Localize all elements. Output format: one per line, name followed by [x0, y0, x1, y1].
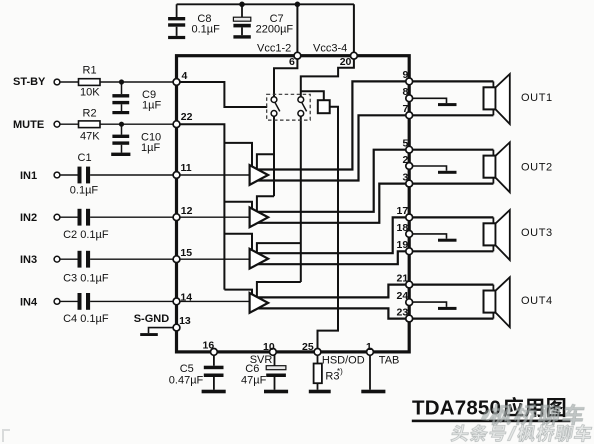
label 47K	[80, 131, 100, 143]
wire Vcc top rail	[177, 3, 354, 5]
node MUTE terminal	[54, 121, 60, 127]
wire coil to pin 25	[318, 107, 339, 352]
wire amp2 out- to pin 3 and OUT2	[258, 184, 494, 223]
svg-text:17: 17	[397, 205, 409, 217]
ground OUT2 mid	[409, 166, 456, 174]
label C7 value	[256, 13, 294, 36]
svg-text:13: 13	[179, 315, 191, 327]
svg-text:C3 0.1µF: C3 0.1µF	[63, 273, 109, 285]
svg-text:Vcc1-2: Vcc1-2	[257, 43, 291, 55]
label R2	[83, 107, 97, 119]
svg-text:C2 0.1µF: C2 0.1µF	[63, 229, 109, 241]
ground (below C10)	[111, 153, 130, 156]
label IN3	[20, 254, 37, 266]
IC TDA7850 body	[177, 56, 410, 352]
junction dot (rail/C7)	[239, 2, 245, 8]
ground (R3)	[309, 390, 331, 394]
svg-text:R1: R1	[83, 65, 97, 77]
ground (TAB)	[361, 390, 385, 394]
label HSD/OD	[322, 355, 365, 367]
wire pin 4 to switch box	[177, 82, 268, 107]
capacitor C3	[60, 251, 250, 268]
watermark row1	[489, 404, 585, 425]
op-amp A1	[250, 165, 269, 185]
node IN4 terminal	[54, 299, 60, 305]
label OUT2	[521, 162, 553, 174]
wire feedback loop amp1	[257, 154, 274, 169]
label IN4	[20, 296, 38, 308]
svg-text:OUT2: OUT2	[521, 162, 553, 174]
wire pin 22 mute bus	[177, 124, 225, 289]
label Vcc1-2	[257, 43, 291, 55]
svg-text:47K: 47K	[80, 131, 100, 143]
svg-text:IN4: IN4	[20, 296, 38, 308]
ground OUT4 mid	[409, 302, 456, 310]
label C8 value	[192, 13, 221, 36]
label OUT1	[521, 92, 553, 104]
pin 8	[403, 86, 413, 102]
svg-text:HSD/OD: HSD/OD	[322, 355, 365, 367]
label 0.1uF (C1)	[70, 185, 99, 197]
speaker OUT2	[484, 142, 510, 192]
svg-text:*): *)	[337, 367, 343, 376]
label C6 value	[241, 363, 267, 387]
wire R2 to pin 22	[100, 123, 177, 125]
wire R1 to pin 4	[100, 81, 177, 83]
wire pin 6 branch to switch	[274, 4, 297, 96]
pin 13	[173, 315, 191, 331]
title TDA7850	[412, 397, 571, 423]
relay coil K1	[318, 100, 330, 113]
label C2 0.1uF	[63, 229, 109, 241]
wire amp4 out- to pin 23 and OUT4	[258, 308, 494, 318]
svg-text:IN3: IN3	[20, 254, 37, 266]
svg-text:24: 24	[397, 290, 409, 302]
capacitor C5	[204, 352, 224, 390]
svg-text:16: 16	[203, 340, 215, 352]
pin 11	[173, 162, 192, 178]
svg-text:C4 0.1µF: C4 0.1µF	[63, 313, 109, 325]
ground S-GND	[140, 333, 158, 336]
op-amp A3	[250, 249, 269, 269]
svg-text:1µF: 1µF	[141, 142, 160, 154]
svg-text:C6: C6	[245, 363, 259, 375]
wire feeder amp3	[224, 234, 252, 250]
pin 16	[203, 340, 218, 356]
node ST-BY terminal	[54, 79, 60, 85]
label S-GND	[134, 313, 170, 325]
wire feeder amp4	[224, 290, 252, 295]
pin 19	[397, 239, 413, 255]
resistor R2	[79, 121, 101, 128]
svg-text:C5: C5	[180, 363, 194, 375]
svg-text:20: 20	[340, 56, 352, 68]
label MUTE	[13, 119, 44, 131]
pin 14	[173, 291, 192, 304]
svg-text:25: 25	[302, 341, 314, 353]
svg-text:18: 18	[397, 222, 409, 234]
ground (below C8)	[168, 36, 185, 39]
svg-text:0.1µF: 0.1µF	[70, 185, 99, 197]
svg-text:19: 19	[397, 239, 409, 251]
watermark row2	[450, 425, 592, 442]
pin 1	[366, 341, 373, 355]
wire OUT2 speaker loop	[492, 150, 494, 184]
switch SW1	[271, 97, 280, 117]
svg-text:C1: C1	[78, 152, 92, 164]
svg-text:ST-BY: ST-BY	[13, 76, 46, 88]
watermark leaf	[481, 409, 492, 422]
pin 20	[340, 52, 358, 68]
wire feedback loop amp2	[257, 196, 274, 211]
wire MUTE to R2	[60, 123, 79, 125]
pin 22	[173, 111, 193, 128]
node IN3 terminal	[54, 256, 60, 262]
resistor R1	[79, 79, 101, 86]
wire amp4 out+ to pin 21 and OUT4	[258, 285, 494, 298]
svg-text:15: 15	[180, 247, 192, 259]
wire ST-BY to R1	[60, 81, 79, 83]
standby/mute switch box (dashed)	[267, 94, 311, 120]
label IN1	[20, 170, 37, 182]
label Vcc3-4	[313, 43, 347, 55]
watermark corner mark	[2, 429, 10, 442]
wire feeder amp1	[224, 143, 252, 167]
wire switch bus 1	[273, 116, 275, 196]
label OUT4	[521, 295, 553, 307]
pin 24	[397, 290, 413, 306]
svg-text:Vcc3-4: Vcc3-4	[313, 43, 347, 55]
svg-text:21: 21	[397, 273, 409, 285]
label C1	[78, 152, 92, 164]
pin 25	[302, 341, 321, 355]
capacitor C8	[168, 4, 185, 36]
wire amp3 out- to pin 19 and OUT3	[258, 251, 494, 264]
svg-text:OUT4: OUT4	[521, 295, 553, 307]
svg-text:10: 10	[263, 341, 275, 353]
capacitor C1	[60, 167, 250, 184]
svg-text:S-GND: S-GND	[134, 313, 170, 325]
node IN2 terminal	[54, 214, 60, 220]
wire amp3 out+ to pin 17 and OUT3	[258, 217, 494, 253]
wire feeder amp2	[224, 202, 252, 209]
capacitor C9	[112, 82, 129, 111]
pin 10	[263, 341, 276, 355]
svg-text:1µF: 1µF	[142, 100, 161, 112]
svg-text:0.47µF: 0.47µF	[169, 375, 204, 387]
wire feedback loop amp3	[257, 243, 301, 253]
speaker OUT1	[484, 74, 510, 124]
wire amp1 out+ to pin 9 and OUT1	[258, 81, 494, 169]
junction dot (rail/pin6)	[295, 2, 301, 8]
svg-text:IN2: IN2	[20, 212, 37, 224]
wire amp1 out- to pin 7 and OUT1	[258, 115, 494, 180]
node IN1 terminal	[54, 172, 60, 178]
ground OUT1 mid	[409, 98, 456, 106]
wire feedback loop amp4	[257, 282, 301, 297]
pin 6	[289, 52, 301, 68]
label SVR	[250, 354, 273, 366]
resistor R3	[314, 352, 322, 390]
capacitor C6 electrolytic	[266, 352, 286, 390]
pin 17	[397, 205, 413, 221]
pin 4	[173, 70, 187, 85]
ground (C6)	[264, 390, 288, 394]
wire OUT3 speaker loop	[492, 217, 494, 251]
svg-text:47µF: 47µF	[241, 375, 267, 387]
label C4 0.1uF	[63, 313, 109, 325]
svg-text:1: 1	[366, 341, 372, 353]
label C9 value	[142, 89, 161, 112]
wire coil top	[301, 91, 324, 100]
wire pin 13 to signal ground	[149, 328, 177, 334]
svg-text:MUTE: MUTE	[13, 119, 44, 131]
pin 5	[403, 138, 413, 154]
ground OUT3 mid	[409, 234, 456, 242]
op-amp A4	[250, 293, 269, 313]
wire switch bus 2	[300, 116, 302, 282]
label C3 0.1uF	[63, 273, 109, 285]
pin 23	[397, 307, 413, 323]
svg-text:3: 3	[403, 171, 409, 183]
wire OUT4 speaker loop	[492, 285, 494, 319]
label C5 value	[169, 363, 204, 387]
svg-text:8: 8	[403, 86, 409, 98]
junction dot (ST-BY/C9)	[119, 79, 124, 84]
capacitor C4	[60, 293, 250, 310]
svg-text:22: 22	[181, 111, 193, 123]
label 10K	[80, 87, 100, 99]
svg-text:2200µF: 2200µF	[256, 24, 294, 36]
svg-text:TAB: TAB	[379, 355, 400, 367]
op-amp A2	[250, 207, 269, 227]
svg-text:0.1µF: 0.1µF	[192, 24, 221, 36]
pin 18	[397, 222, 413, 237]
ground (below C9)	[112, 111, 129, 114]
pin 7	[403, 103, 413, 119]
pin 9	[403, 69, 413, 85]
capacitor C7 electrolytic	[233, 4, 250, 35]
svg-text:OUT1: OUT1	[521, 92, 553, 104]
speaker OUT3	[484, 210, 510, 260]
ground (below C7)	[233, 35, 250, 38]
svg-text:11: 11	[181, 162, 192, 174]
label ST-BY	[13, 76, 46, 88]
svg-text:9: 9	[403, 69, 409, 81]
junction dot (MUTE/C10)	[119, 122, 124, 127]
svg-text:12: 12	[181, 205, 193, 217]
svg-text:7: 7	[403, 103, 409, 115]
switch SW2	[298, 97, 307, 117]
label R3	[325, 367, 343, 383]
pin 21	[397, 273, 413, 289]
ground (C5)	[202, 390, 226, 394]
speaker OUT4	[484, 277, 510, 327]
label R1	[83, 65, 97, 77]
capacitor C2	[60, 209, 250, 226]
wire pin 20 branch to switch	[301, 4, 354, 96]
label C10 value	[141, 131, 161, 154]
wire OUT1 speaker loop	[492, 81, 494, 115]
svg-text:4: 4	[182, 70, 188, 82]
svg-text:2: 2	[403, 154, 409, 166]
pin 2	[403, 154, 413, 170]
wire amp2 out+ to pin 5 and OUT2	[258, 150, 494, 212]
pin 3	[403, 171, 413, 187]
svg-text:23: 23	[397, 307, 409, 319]
label IN2	[20, 212, 37, 224]
pin 15	[173, 247, 192, 262]
wire pin 1 to ground	[369, 352, 371, 390]
svg-text:6: 6	[289, 56, 295, 68]
svg-text:14: 14	[180, 291, 192, 303]
svg-text:5: 5	[403, 138, 409, 150]
label TAB	[379, 355, 400, 367]
label OUT3	[521, 227, 553, 239]
capacitor C10	[112, 124, 129, 152]
svg-text:R2: R2	[83, 107, 97, 119]
svg-text:10K: 10K	[80, 87, 100, 99]
pin 12	[173, 205, 193, 221]
svg-text:OUT3: OUT3	[521, 227, 553, 239]
svg-text:IN1: IN1	[20, 170, 37, 182]
